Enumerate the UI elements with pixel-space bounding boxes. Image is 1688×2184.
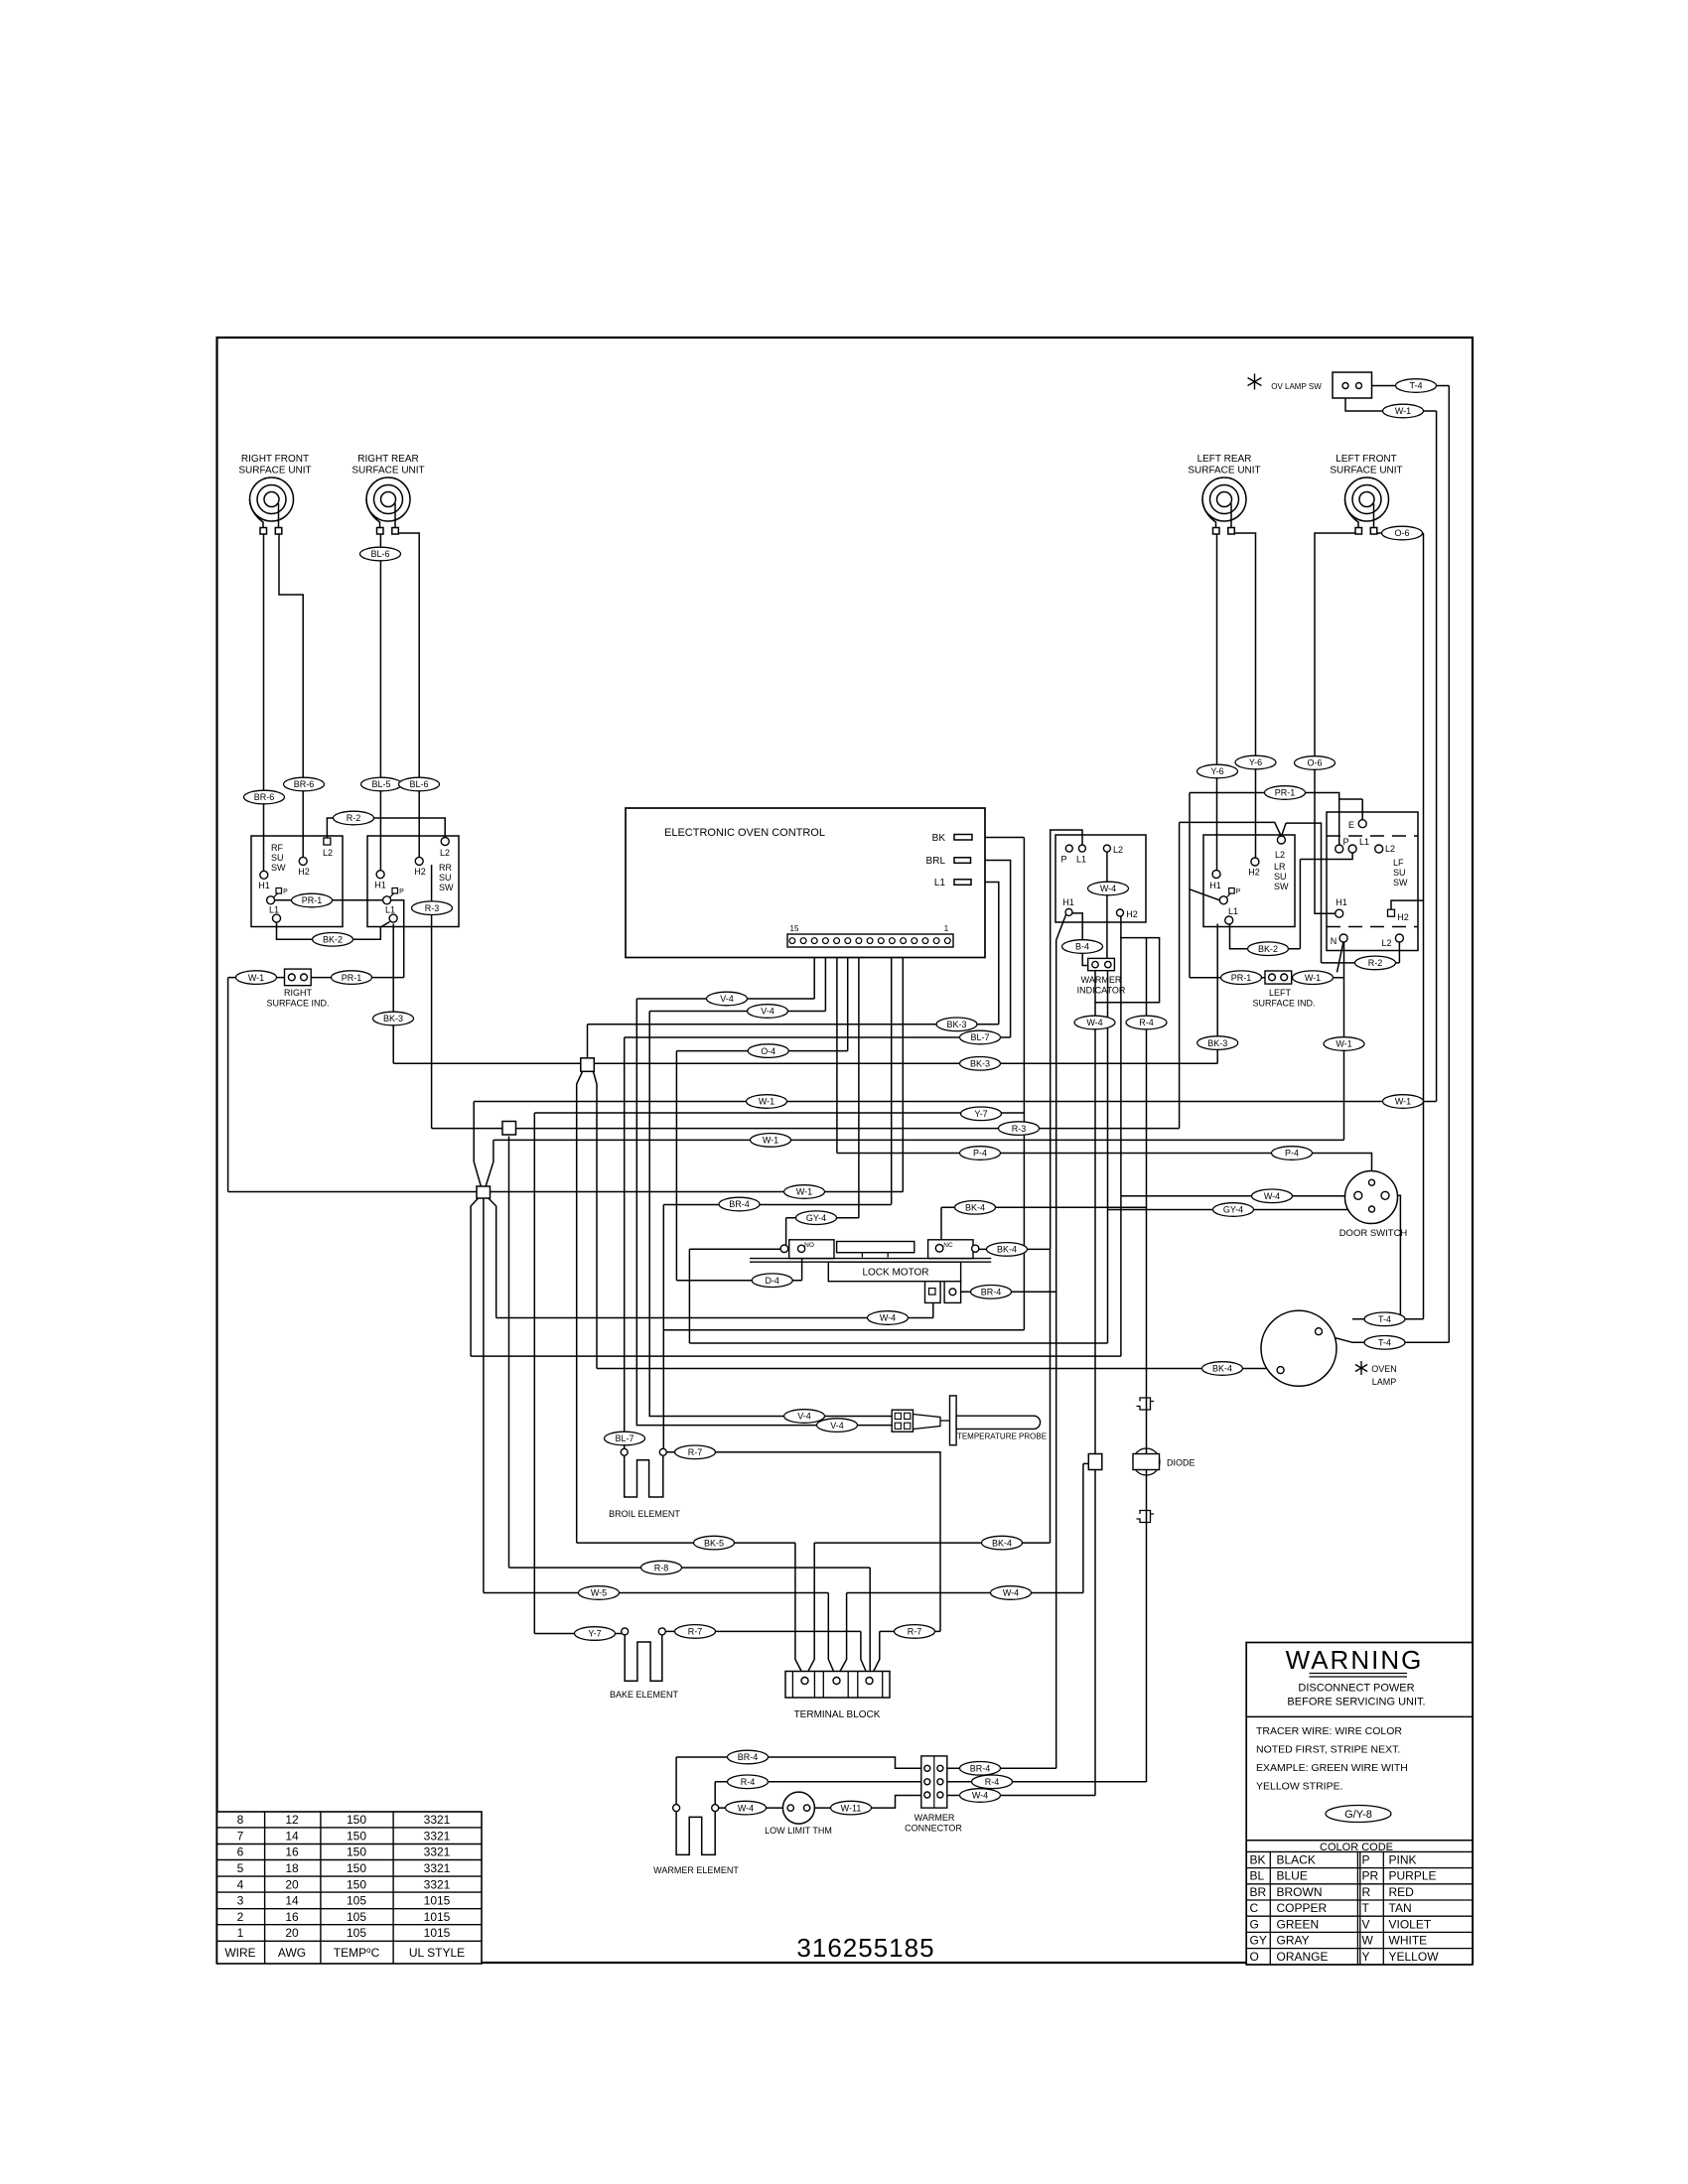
svg-text:V-4: V-4: [720, 994, 734, 1004]
lamp terminal lower: [1277, 1367, 1284, 1374]
warmer indicator box: [1055, 835, 1146, 922]
wire BK-5 bus left: [577, 1542, 795, 1544]
svg-text:P-4: P-4: [1285, 1149, 1299, 1159]
wire T-4 line 2: [1322, 1334, 1449, 1342]
svg-text:H1: H1: [374, 881, 386, 890]
wire BK-2 riser: [1299, 860, 1301, 949]
left surface indicator connector: [1265, 971, 1292, 984]
wire label R-4: [972, 1775, 1013, 1789]
svg-text:BK-4: BK-4: [992, 1538, 1012, 1548]
svg-text:SW: SW: [1393, 878, 1408, 887]
wire R-8 line: [509, 1567, 871, 1569]
svg-text:RIGHT FRONT: RIGHT FRONT: [241, 454, 309, 465]
wire label W-4: [991, 1586, 1032, 1600]
lock base: [750, 1259, 991, 1263]
wire PR-1 right to LF P: [1305, 793, 1339, 846]
lock motor lower box: [828, 1262, 960, 1282]
wire W-1 bus lower / pin5: [228, 944, 904, 1192]
wire GY-4 lock line: [786, 1217, 859, 1219]
svg-text:SU: SU: [271, 853, 284, 863]
wire R-3 vertical: [431, 865, 433, 1129]
wire door right to T-4: [1389, 1195, 1400, 1319]
wire R-4 diode vertical: [1146, 938, 1148, 1782]
wire BR-4 bus: [663, 1204, 891, 1206]
wire label BL-6: [399, 777, 440, 791]
svg-text:SURFACE IND.: SURFACE IND.: [266, 999, 329, 1009]
wire BR-4 drop to broil line: [662, 1205, 664, 1330]
svg-text:RED: RED: [1389, 1885, 1415, 1899]
wire label GY-4: [1213, 1203, 1254, 1217]
RF surface switch box: [251, 836, 343, 927]
svg-text:SURFACE UNIT: SURFACE UNIT: [238, 466, 311, 477]
warmer indicator connector: [1088, 958, 1115, 970]
wire label R-3: [999, 1122, 1040, 1136]
svg-text:SURFACE UNIT: SURFACE UNIT: [1330, 466, 1402, 477]
svg-text:NC: NC: [943, 1242, 953, 1249]
svg-text:T-4: T-4: [1409, 381, 1422, 391]
svg-text:LEFT FRONT: LEFT FRONT: [1336, 454, 1396, 465]
inline connector upper: [1137, 1398, 1155, 1410]
wire branch to LF H2: [1391, 900, 1424, 909]
svg-text:RR: RR: [439, 863, 452, 873]
svg-text:BK: BK: [932, 833, 946, 844]
RR L1 terminal: [389, 914, 397, 922]
svg-text:O-6: O-6: [1307, 758, 1322, 768]
svg-text:W-1: W-1: [1305, 973, 1321, 983]
wire BK vertical from EOC: [1023, 838, 1025, 1330]
svg-text:H2: H2: [1397, 912, 1409, 922]
wire W-4 riser to splice: [1082, 1463, 1084, 1592]
svg-text:H2: H2: [298, 867, 310, 877]
door pin right: [1381, 1191, 1389, 1199]
svg-text:DIODE: DIODE: [1167, 1458, 1196, 1468]
wire label W-1: [747, 1095, 787, 1109]
wire label R-8: [641, 1561, 682, 1574]
svg-text:BK-2: BK-2: [323, 935, 343, 945]
svg-text:GY: GY: [1250, 1934, 1267, 1948]
wire label BK-3: [960, 1057, 1001, 1071]
wire label R-3: [412, 901, 453, 915]
wire splice1 tail right: [594, 1072, 598, 1369]
wire label R-4: [1126, 1016, 1167, 1029]
svg-text:LOW LIMIT THM: LOW LIMIT THM: [765, 1826, 832, 1836]
svg-text:L1: L1: [1228, 906, 1238, 916]
svg-text:E: E: [1348, 820, 1354, 830]
svg-text:B-4: B-4: [1075, 942, 1089, 952]
svg-text:R: R: [1362, 1885, 1371, 1899]
svg-text:P: P: [1362, 1853, 1370, 1867]
svg-text:GREEN: GREEN: [1277, 1917, 1320, 1931]
svg-text:W-1: W-1: [1395, 406, 1411, 416]
svg-text:W-4: W-4: [1100, 884, 1116, 893]
wire label BR-4: [971, 1286, 1012, 1299]
svg-text:H1: H1: [258, 881, 270, 890]
wire R-2 left riser: [1286, 823, 1321, 963]
lock motor NC switch block: [928, 1240, 973, 1259]
svg-text:R-2: R-2: [347, 813, 361, 823]
wire O-4 to D-4 vertical: [675, 1051, 677, 1281]
wire label D-4: [752, 1274, 792, 1288]
TB terminal 3: [866, 1678, 873, 1685]
svg-text:H2: H2: [1126, 909, 1138, 919]
svg-text:SW: SW: [271, 863, 286, 873]
RF L2 terminal: [324, 838, 331, 845]
svg-text:L1: L1: [385, 905, 395, 915]
wire label W-1: [784, 1185, 825, 1199]
wire BK-4 to NC: [940, 1207, 942, 1244]
svg-text:WARMER: WARMER: [914, 1813, 955, 1823]
svg-text:BK-2: BK-2: [1258, 944, 1278, 954]
wire Y-7 bus: [534, 1112, 1024, 1114]
svg-text:RIGHT: RIGHT: [284, 988, 313, 998]
svg-text:3: 3: [237, 1894, 244, 1908]
RR L2 terminal: [441, 838, 449, 846]
svg-text:PR-1: PR-1: [1231, 973, 1252, 983]
wire label W-11: [831, 1801, 872, 1815]
wire W-11 low limit right: [810, 1796, 921, 1809]
wire label BR-4: [728, 1750, 769, 1764]
splice square 2: [502, 1122, 516, 1136]
svg-text:PR-1: PR-1: [1275, 788, 1296, 798]
door pin bottom: [1369, 1206, 1375, 1212]
temperature probe connector: [892, 1410, 913, 1432]
low limit thermostat: [782, 1792, 814, 1824]
svg-text:150: 150: [347, 1845, 366, 1859]
svg-text:COPPER: COPPER: [1277, 1901, 1328, 1915]
svg-text:TERMINAL BLOCK: TERMINAL BLOCK: [794, 1709, 881, 1720]
svg-text:N: N: [1331, 936, 1337, 946]
svg-text:WHITE: WHITE: [1389, 1934, 1428, 1948]
wire BK-4 NC line: [941, 1206, 1147, 1208]
wire LR switch lever: [1190, 889, 1219, 900]
wire warmer elem right up: [714, 1782, 716, 1805]
surface unit coil: right rear: [366, 478, 410, 534]
surface unit coil: left front: [1345, 478, 1389, 534]
svg-text:P: P: [1342, 837, 1348, 847]
svg-text:1: 1: [944, 924, 949, 933]
wire pin9 GY-4: [858, 944, 860, 1218]
wire lock NO left line: [689, 1248, 780, 1250]
svg-text:LEFT REAR: LEFT REAR: [1197, 454, 1252, 465]
svg-text:SW: SW: [1274, 882, 1289, 891]
wire to LF L1: [1300, 853, 1352, 860]
wire W-1 left vertical: [227, 978, 229, 1192]
svg-text:16: 16: [285, 1910, 299, 1924]
LR L1 terminal: [1225, 916, 1233, 924]
wire P-4 to door switch: [837, 1154, 1372, 1180]
svg-text:TEMPERATURE PROBE: TEMPERATURE PROBE: [957, 1433, 1047, 1441]
svg-text:L1: L1: [934, 878, 946, 888]
svg-text:BRL: BRL: [926, 856, 946, 867]
svg-text:5: 5: [237, 1861, 244, 1875]
svg-text:6: 6: [237, 1845, 244, 1859]
wire warmer elem left up: [675, 1757, 677, 1805]
RR P flag stem: [390, 893, 395, 898]
svg-text:W-4: W-4: [1264, 1191, 1280, 1201]
lock motor legs: [862, 1253, 888, 1258]
svg-text:BR: BR: [1250, 1885, 1267, 1899]
RR H1 terminal: [376, 871, 384, 879]
LR surface switch box: [1203, 835, 1295, 927]
wire RF H2 lead: [279, 534, 303, 857]
wire R-7 bake right: [665, 1630, 861, 1632]
svg-text:BK-4: BK-4: [997, 1245, 1017, 1255]
svg-text:BK-3: BK-3: [383, 1014, 403, 1024]
wire label V-4: [817, 1419, 858, 1433]
wire label V-4: [784, 1410, 825, 1424]
wire label O-6: [1295, 756, 1336, 770]
svg-text:18: 18: [285, 1861, 299, 1875]
wire LF N lever: [1337, 941, 1344, 972]
wire label B-4: [1062, 940, 1103, 954]
svg-text:VIOLET: VIOLET: [1389, 1917, 1432, 1931]
LR P flag stem: [1226, 893, 1231, 898]
wire Y-7 to bake: [534, 1633, 621, 1635]
svg-text:W-4: W-4: [880, 1313, 896, 1323]
wire R-8 into TB3: [869, 1568, 871, 1677]
wire BK-3 upper: [588, 1024, 999, 1025]
svg-text:ORANGE: ORANGE: [1277, 1950, 1329, 1964]
svg-text:LEFT: LEFT: [1269, 988, 1292, 998]
svg-text:R-7: R-7: [908, 1627, 922, 1637]
svg-text:3321: 3321: [424, 1861, 451, 1875]
wire warmer H2 vertical: [1120, 916, 1122, 1356]
svg-text:8: 8: [237, 1813, 244, 1827]
RF H2 terminal: [299, 857, 307, 865]
svg-text:ELECTRONIC OVEN CONTROL: ELECTRONIC OVEN CONTROL: [664, 827, 825, 839]
svg-text:PR-1: PR-1: [302, 895, 323, 905]
wire label BK-2: [313, 933, 353, 947]
svg-text:BAKE ELEMENT: BAKE ELEMENT: [610, 1690, 679, 1700]
svg-text:L2: L2: [1113, 845, 1123, 855]
svg-text:1015: 1015: [424, 1910, 451, 1924]
wire GY-4 to lock NO: [785, 1218, 787, 1245]
svg-text:150: 150: [347, 1813, 366, 1827]
wire pin13: [813, 944, 815, 1000]
svg-text:20: 20: [285, 1926, 299, 1940]
wire label R-2: [1355, 956, 1396, 970]
svg-text:14: 14: [285, 1894, 299, 1908]
svg-text:BK-4: BK-4: [965, 1203, 985, 1213]
warmer squiggle: [676, 1812, 715, 1855]
wire LR H2 lead: [1235, 533, 1256, 858]
wire BL-7 line: [625, 1036, 1011, 1038]
svg-text:SU: SU: [1393, 868, 1406, 878]
wire R-4 warmer right: [947, 1781, 1147, 1783]
oven lamp: [1261, 1310, 1336, 1386]
warmer L1 terminal: [1078, 845, 1085, 852]
svg-text:H1: H1: [1209, 881, 1221, 890]
wire W-1 right vertical: [1345, 398, 1437, 1102]
wire label BK-2: [1248, 942, 1289, 956]
wire warmer zigzag to pin1: [1095, 938, 1160, 1003]
svg-text:3321: 3321: [424, 1829, 451, 1843]
svg-text:V-4: V-4: [830, 1421, 844, 1431]
svg-text:L2: L2: [1385, 844, 1395, 854]
wire label W-4: [726, 1801, 767, 1815]
wire label BR-4: [719, 1197, 760, 1211]
wire LR H1 lead: [1216, 534, 1218, 871]
wire pin12: [824, 944, 826, 1012]
RR surface switch box: [367, 836, 459, 927]
svg-text:L1: L1: [269, 905, 279, 915]
wire BR-4 long vertical: [1055, 940, 1057, 1768]
wire label BK-3: [936, 1018, 977, 1031]
svg-text:YELLOW: YELLOW: [1389, 1950, 1440, 1964]
wire R-7 broil to right: [666, 1452, 940, 1632]
wire label W-4: [868, 1311, 909, 1325]
wire label PR-1: [1221, 971, 1262, 985]
RF L1 terminal: [273, 914, 281, 922]
svg-text:R-4: R-4: [985, 1777, 1000, 1787]
wire label V-4: [707, 992, 748, 1006]
drawing frame border: [217, 338, 1474, 1963]
svg-text:TRACER WIRE: WIRE COLOR: TRACER WIRE: WIRE COLOR: [1256, 1725, 1402, 1737]
wire BK-5 into TB1: [795, 1543, 804, 1677]
LF surface switch box: [1327, 812, 1418, 951]
warmer element: [673, 1805, 680, 1812]
wire splice1 tail left: [577, 1072, 583, 1544]
svg-text:LAMP: LAMP: [1372, 1377, 1397, 1387]
svg-text:W-1: W-1: [248, 973, 264, 983]
svg-text:YELLOW STRIPE.: YELLOW STRIPE.: [1256, 1781, 1343, 1793]
G/Y-8 example label: [1326, 1806, 1391, 1823]
svg-text:W-1: W-1: [763, 1136, 778, 1146]
svg-text:H1: H1: [1336, 897, 1347, 907]
wire W-4 low limit left: [719, 1807, 788, 1809]
wire warmer pin2 down: [1107, 970, 1109, 1343]
wire W-4 lock motor line: [496, 1302, 933, 1318]
wire W-5 into TB2: [828, 1593, 836, 1678]
door pin top: [1369, 1179, 1375, 1185]
LF L1 terminal: [1348, 845, 1356, 853]
svg-text:12: 12: [285, 1813, 299, 1827]
wire PR-1 RF P to RR P: [275, 899, 383, 901]
RF H1 terminal: [260, 871, 268, 879]
wire W-4 door line: [1121, 1195, 1354, 1197]
svg-text:CONNECTOR: CONNECTOR: [905, 1824, 962, 1834]
warmer H1 terminal: [1065, 908, 1072, 915]
electronic oven control box: [626, 808, 985, 958]
wire warmer H1 lever: [1056, 915, 1066, 941]
svg-text:Y: Y: [1362, 1950, 1370, 1964]
wire label T-4: [1396, 379, 1437, 393]
warning box: [1246, 1643, 1473, 1966]
svg-text:WARNING: WARNING: [1286, 1645, 1424, 1675]
LR H2 terminal: [1251, 858, 1259, 866]
svg-text:W: W: [1362, 1934, 1374, 1948]
svg-text:15: 15: [790, 924, 799, 933]
wire T-4 right vertical: [1362, 386, 1450, 1343]
wire label GY-4: [796, 1211, 837, 1225]
svg-text:16: 16: [285, 1845, 299, 1859]
wire W-1 bus upper: [474, 1101, 1436, 1103]
svg-text:GRAY: GRAY: [1277, 1934, 1310, 1948]
wire RR H1 lead: [379, 534, 381, 871]
LF H2 terminal: [1388, 909, 1395, 916]
wire label R-7: [675, 1445, 716, 1459]
wire label BK-3: [373, 1012, 414, 1025]
svg-text:V-4: V-4: [797, 1412, 811, 1422]
wire label BK-5: [694, 1536, 735, 1550]
svg-text:LOCK MOTOR: LOCK MOTOR: [862, 1268, 928, 1279]
svg-text:7: 7: [237, 1829, 244, 1843]
wire W-5 bus left: [484, 1592, 828, 1594]
svg-text:V-4: V-4: [761, 1007, 774, 1017]
wire V-4 upper: [636, 998, 814, 1000]
splice square 3: [477, 1186, 491, 1198]
wire label W-4: [960, 1789, 1001, 1803]
svg-text:BR-4: BR-4: [970, 1764, 991, 1774]
svg-text:G: G: [1250, 1917, 1259, 1931]
wire R-7 lower right: [880, 1630, 940, 1632]
svg-text:WARMER ELEMENT: WARMER ELEMENT: [653, 1865, 739, 1875]
wire warmer pin2 line: [689, 1249, 1107, 1343]
wire W-1 bus mid: [493, 1139, 1344, 1141]
wire R-4 warmer left: [715, 1781, 921, 1783]
svg-text:AWG: AWG: [278, 1946, 306, 1960]
door switch: [1345, 1171, 1398, 1224]
svg-text:R-7: R-7: [688, 1627, 703, 1637]
svg-text:V: V: [1362, 1917, 1370, 1931]
wire into splice 4: [1083, 1462, 1088, 1464]
wire label T-4: [1364, 1336, 1405, 1350]
svg-text:BK-3: BK-3: [946, 1020, 966, 1029]
svg-text:BL-7: BL-7: [615, 1433, 633, 1443]
wire splice3 tail right: [489, 1198, 496, 1318]
right surface indicator connector: [285, 969, 312, 986]
wire label BK-4: [955, 1201, 996, 1215]
svg-text:EXAMPLE: GREEN WIRE WITH: EXAMPLE: GREEN WIRE WITH: [1256, 1762, 1408, 1774]
EOC 15-pin strip: [787, 934, 953, 947]
wire LR L1 down BK-3: [1216, 924, 1218, 1064]
wire label P-4: [960, 1147, 1001, 1160]
svg-text:TAN: TAN: [1389, 1901, 1412, 1915]
svg-text:GY-4: GY-4: [1223, 1205, 1243, 1215]
door pin left: [1354, 1191, 1362, 1199]
probe neck: [940, 1420, 950, 1422]
svg-text:NOTED FIRST, STRIPE NEXT.: NOTED FIRST, STRIPE NEXT.: [1256, 1744, 1400, 1756]
wire warmer H1 to B-4 to pin1: [1072, 913, 1092, 966]
splice square 1: [581, 1058, 595, 1072]
wire left surface ind row: [1190, 977, 1344, 979]
LR L2 terminal: [1277, 836, 1285, 844]
svg-text:R-3: R-3: [425, 903, 440, 913]
warmer L2 terminal: [1103, 845, 1110, 852]
wire warmer L2 down: [1106, 852, 1108, 970]
svg-text:O-6: O-6: [1394, 528, 1409, 538]
wire LF H1 lead: [1315, 533, 1355, 913]
wire label BR-4: [960, 1762, 1001, 1776]
svg-text:BR-4: BR-4: [729, 1199, 750, 1209]
wire label PR-1: [1265, 786, 1306, 800]
svg-text:1015: 1015: [424, 1894, 451, 1908]
wire BR-4 warmer left: [676, 1757, 921, 1768]
svg-text:316255185: 316255185: [796, 1933, 934, 1963]
wire label R-2: [334, 811, 374, 825]
lock square terminal: [929, 1289, 936, 1296]
svg-text:BK-3: BK-3: [1207, 1038, 1227, 1048]
wire label BK-4: [982, 1536, 1023, 1550]
svg-text:RF: RF: [271, 843, 283, 853]
RF P flag stem: [274, 893, 279, 898]
svg-text:L2: L2: [323, 848, 333, 858]
svg-text:W-11: W-11: [841, 1803, 862, 1813]
svg-text:105: 105: [347, 1910, 366, 1924]
svg-text:3321: 3321: [424, 1877, 451, 1891]
wire R-7 into TB3 right: [871, 1631, 880, 1677]
svg-text:W-5: W-5: [591, 1588, 607, 1598]
